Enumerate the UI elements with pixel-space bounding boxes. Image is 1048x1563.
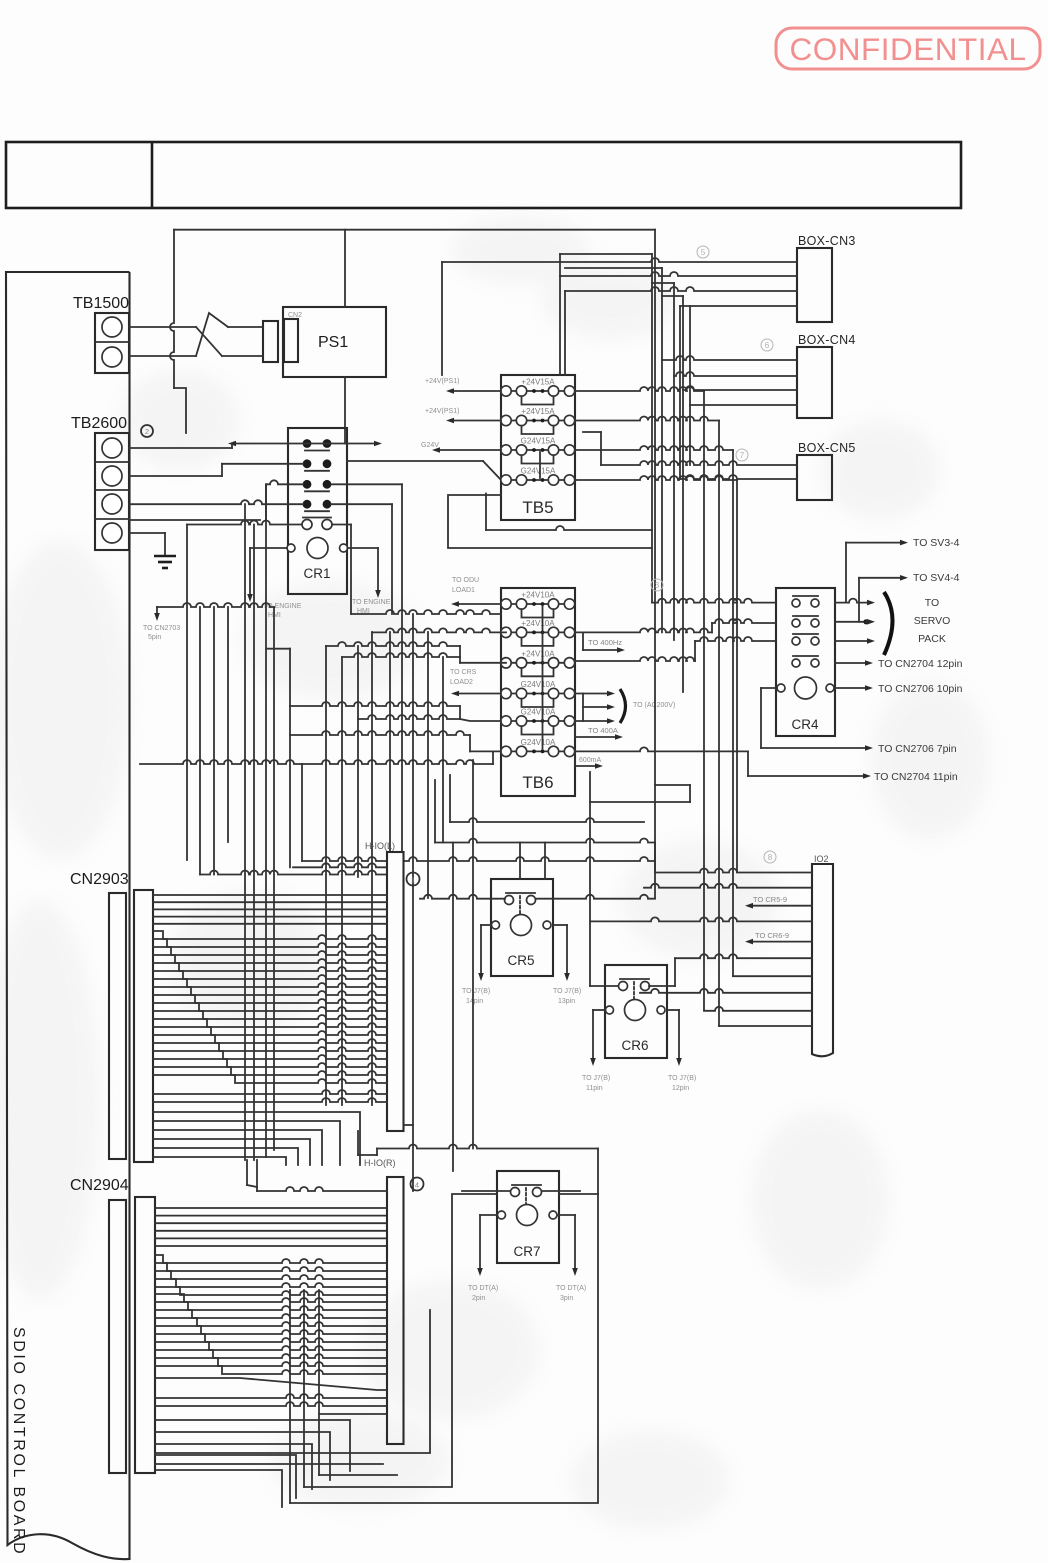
svg-text:CR4: CR4 <box>791 717 818 732</box>
svg-text:TO 400A: TO 400A <box>588 726 618 735</box>
svg-text:TO SV4-4: TO SV4-4 <box>913 572 960 584</box>
svg-text:G24V10A: G24V10A <box>521 680 556 689</box>
jog from x266 to x290 <box>266 648 290 650</box>
TO CN2704 12pin <box>835 658 963 670</box>
TB5 row2 left arrow <box>425 408 501 423</box>
SDIO control board outline <box>6 272 130 1559</box>
svg-text:TO CR6-9: TO CR6-9 <box>755 931 789 940</box>
circled 1 <box>407 873 420 886</box>
svg-text:1: 1 <box>411 876 415 885</box>
terminal block TB2600 <box>71 415 129 550</box>
CR1 contact row wire <box>187 521 351 615</box>
svg-text:+24V10A: +24V10A <box>521 619 555 628</box>
TB5 row 4 G24V15A <box>501 467 575 486</box>
connector H-IO(R) <box>364 1158 404 1444</box>
vertical from top run down left <box>170 230 186 433</box>
CR1 row3 right down <box>331 484 402 852</box>
bottom wire loops <box>155 1310 430 1475</box>
CR1 row4 wire <box>129 500 303 504</box>
CR7 contact feed <box>377 1145 598 1195</box>
TB6 row 2 +24V10A <box>501 619 575 646</box>
circled note 8 <box>764 851 776 863</box>
svg-text:+24V10A: +24V10A <box>521 591 555 600</box>
svg-text:TO DT(A): TO DT(A) <box>556 1285 586 1292</box>
svg-text:TB5: TB5 <box>522 498 553 517</box>
circled note 3 <box>651 579 663 591</box>
svg-text:G24V: G24V <box>421 442 439 449</box>
wires down into CR5 top <box>520 843 545 880</box>
TB6 row 5 G24V10A <box>501 708 575 735</box>
svg-text:G24V15A: G24V15A <box>521 467 556 476</box>
CR1 row1 wire with arrows <box>129 441 382 448</box>
svg-text:CN2903: CN2903 <box>70 871 129 888</box>
TB6 row4-6 right arrows to bracket <box>575 689 675 724</box>
TB6 row 6 G24V10A <box>501 738 575 757</box>
svg-text:2pin: 2pin <box>472 1295 485 1302</box>
svg-text:6: 6 <box>765 341 770 350</box>
svg-text:14pin: 14pin <box>466 998 483 1005</box>
svg-text:11pin: 11pin <box>586 1085 603 1092</box>
CONFIDENTIAL stamp <box>776 28 1040 69</box>
TB6 row2 right TO 400Hz arrow <box>583 632 625 652</box>
svg-text:TO DT(A): TO DT(A) <box>468 1285 498 1292</box>
TB6 row 1 +24V10A <box>501 591 575 618</box>
svg-text:5: 5 <box>701 248 706 257</box>
svg-text:BOX-CN3: BOX-CN3 <box>798 234 856 248</box>
svg-text:H-IO(L): H-IO(L) <box>365 841 395 851</box>
CR4 row inputs <box>575 599 776 661</box>
svg-text:PACK: PACK <box>918 633 946 645</box>
svg-text:TO: TO <box>925 597 939 609</box>
relay CR4 <box>776 588 835 736</box>
svg-text:+24V15A: +24V15A <box>521 407 555 416</box>
svg-text:TO CN2704 12pin: TO CN2704 12pin <box>878 658 963 670</box>
ground <box>129 533 176 568</box>
H-IO(L) bottom right stub <box>404 1124 413 1126</box>
svg-text:LOAD2: LOAD2 <box>450 679 473 686</box>
svg-text:TO CN2706 10pin: TO CN2706 10pin <box>878 683 963 695</box>
CR1 row4 right down <box>331 504 392 614</box>
long runs to right side <box>404 775 812 888</box>
TB5 row 2 +24V15A <box>501 407 575 434</box>
circled note 7 <box>736 449 748 461</box>
svg-text:7: 7 <box>740 451 745 460</box>
svg-text:BOX-CN5: BOX-CN5 <box>798 441 856 455</box>
terminal strip TB6 <box>501 588 575 796</box>
circled 4 <box>411 1178 424 1191</box>
svg-text:3: 3 <box>655 581 660 590</box>
feeds down to CR7 area <box>453 760 473 1171</box>
svg-text:600mA: 600mA <box>579 757 602 764</box>
TB6 row6 right 600mA arrow <box>575 751 603 768</box>
svg-text:CN2904: CN2904 <box>70 1177 129 1194</box>
TO CN2704 11pin <box>575 747 958 783</box>
TB5 row1 left arrow <box>425 378 501 394</box>
svg-text:TO J7(B): TO J7(B) <box>462 988 490 995</box>
relay CR1 <box>287 428 348 594</box>
wires to BOX-CN4 <box>662 356 797 405</box>
svg-text:TO CN2703: TO CN2703 <box>143 625 180 632</box>
svg-text:TO ENGINE: TO ENGINE <box>352 599 391 606</box>
svg-text:5pin: 5pin <box>148 634 161 641</box>
left vertical bundle <box>187 484 274 1160</box>
svg-text:TO CN2704 11pin: TO CN2704 11pin <box>874 771 958 783</box>
wires to BOX-CN5 <box>583 432 797 479</box>
CR1 row2 right to TB5 row4 <box>347 461 501 480</box>
CR7 outer loop <box>290 1191 598 1503</box>
relay CR6 <box>605 965 667 1058</box>
svg-text:3pin: 3pin <box>560 1295 573 1302</box>
svg-text:TO SV3-4: TO SV3-4 <box>913 537 960 549</box>
CR1 row2 wire <box>129 464 303 476</box>
title block table <box>6 142 961 208</box>
power supply PS1 <box>283 307 386 377</box>
svg-text:CR5: CR5 <box>507 953 534 968</box>
verticals H-IO(L) to lower area <box>358 1131 377 1155</box>
svg-text:2: 2 <box>145 427 149 436</box>
TB6 row4 left arrow TO CRS LOAD2 <box>450 669 501 696</box>
connector H-IO(L) <box>365 841 404 1131</box>
IO2 stub wires <box>590 869 812 1027</box>
svg-text:SERVO: SERVO <box>914 615 951 627</box>
CR7 coil leads <box>468 1215 586 1302</box>
svg-text:CN2: CN2 <box>288 312 302 319</box>
svg-text:CR1: CR1 <box>303 566 330 581</box>
connector CN2904 <box>70 1177 155 1473</box>
circled note 6 <box>761 339 773 351</box>
TB5 row 3 G24V15A <box>501 437 575 464</box>
CN2903 fan wires <box>153 895 387 1165</box>
connector CN2903 <box>70 871 153 1162</box>
TB6 row5 right TO 400A arrow <box>575 721 623 740</box>
svg-text:SDIO CONTROL BOARD: SDIO CONTROL BOARD <box>10 1327 27 1556</box>
horizontals into H-IO(L) left <box>200 871 387 875</box>
svg-text:PS1: PS1 <box>318 334 348 351</box>
TO CN2706 7pin <box>761 688 957 755</box>
TB5 row 1 +24V15A <box>501 378 575 405</box>
svg-text:TO CRS: TO CRS <box>450 669 477 676</box>
svg-text:TO ODU: TO ODU <box>452 577 479 584</box>
svg-text:TO CN2706 7pin: TO CN2706 7pin <box>878 743 957 755</box>
long horizontal runs <box>140 603 506 867</box>
svg-text:TB6: TB6 <box>522 773 553 792</box>
svg-text:TB1500: TB1500 <box>73 295 129 312</box>
svg-text:IO2: IO2 <box>814 854 829 864</box>
circled note 2 <box>141 425 153 437</box>
vertical bundle center <box>560 230 690 898</box>
CN2904 fan wires <box>155 1208 387 1507</box>
TB5 bottom wrap wires <box>448 494 652 549</box>
svg-text:13pin: 13pin <box>558 998 575 1005</box>
relay CR7 <box>497 1171 559 1263</box>
svg-text:+24V10A: +24V10A <box>521 649 555 658</box>
relay CR5 <box>491 879 553 976</box>
TB6 row 3 +24V10A <box>501 649 575 676</box>
circled note 5 <box>697 246 709 258</box>
TO CN2706 10pin <box>835 683 963 695</box>
CR6 contact wiring <box>590 772 690 986</box>
svg-text:H-IO(R): H-IO(R) <box>364 1158 396 1168</box>
svg-text:+24V15A: +24V15A <box>521 378 555 387</box>
wire top run <box>174 229 655 231</box>
connector BOX-CN4 <box>797 333 856 418</box>
svg-text:12pin: 12pin <box>672 1085 689 1092</box>
terminal strip TB5 <box>501 375 575 520</box>
svg-text:CR6: CR6 <box>621 1038 648 1053</box>
svg-text:+24V(PS1): +24V(PS1) <box>425 378 459 385</box>
svg-text:TO 400Hz: TO 400Hz <box>588 638 622 647</box>
CR1 coil leads with arrows <box>247 548 391 619</box>
TB6 row1 left arrow TO ODU LOAD1 <box>451 577 501 607</box>
TB5 row3 left arrow <box>421 442 501 453</box>
TB6 row 4 G24V10A <box>501 680 575 707</box>
arrow to CN2703 <box>143 607 180 641</box>
mid verticals <box>326 614 443 1191</box>
CR6 coil leads <box>582 1010 696 1092</box>
CR5 coil leads <box>462 925 581 1005</box>
CR4 outputs to servo <box>835 592 950 655</box>
svg-text:8: 8 <box>768 853 773 862</box>
terminal block TB1500 <box>73 295 129 373</box>
svg-text:CR7: CR7 <box>513 1244 540 1259</box>
svg-text:BOX-CN4: BOX-CN4 <box>798 333 856 347</box>
connector BOX-CN3 <box>797 234 856 322</box>
wire TB1500 to PS1 with twist <box>129 313 263 356</box>
vertical x345 top <box>344 230 346 444</box>
svg-text:TO J7(B): TO J7(B) <box>582 1075 610 1082</box>
CR5 contact wiring <box>420 895 655 899</box>
svg-text:TO J7(B): TO J7(B) <box>553 988 581 995</box>
wire into H-IO(R) top <box>247 1160 387 1191</box>
TO SV3-4 <box>846 537 960 603</box>
TB5 right feeds down <box>575 387 737 1026</box>
svg-text:CONFIDENTIAL: CONFIDENTIAL <box>789 31 1026 67</box>
connector IO2 <box>812 854 833 1056</box>
svg-text:TO CR5-9: TO CR5-9 <box>753 895 787 904</box>
wires to BOX-CN3 <box>442 258 797 375</box>
svg-text:+24V(PS1): +24V(PS1) <box>425 408 459 415</box>
svg-text:LOAD1: LOAD1 <box>452 587 475 594</box>
svg-text:G24V10A: G24V10A <box>521 738 556 747</box>
PS1 plug <box>263 321 278 362</box>
braid verticals lower <box>290 1290 387 1503</box>
svg-text:G24V10A: G24V10A <box>521 708 556 717</box>
TO SV4-4 <box>859 572 960 622</box>
svg-text:4: 4 <box>415 1181 419 1190</box>
svg-text:TB2600: TB2600 <box>71 415 127 432</box>
CR1 row3 wire <box>129 480 303 520</box>
svg-text:TO J7(B): TO J7(B) <box>668 1075 696 1082</box>
svg-text:G24V15A: G24V15A <box>521 437 556 446</box>
connector BOX-CN5 <box>797 441 856 500</box>
